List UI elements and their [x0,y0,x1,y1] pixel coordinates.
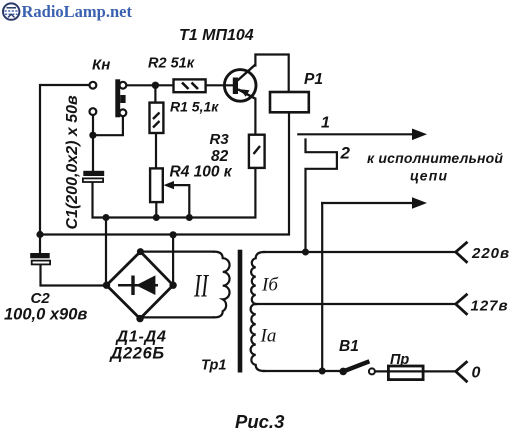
svg-text:II: II [193,268,209,303]
svg-text:RadioLamp.net: RadioLamp.net [22,2,133,21]
svg-text:Iб: Iб [261,275,279,296]
svg-text:100,0 х90в: 100,0 х90в [4,306,87,324]
svg-text:Кн: Кн [92,57,110,74]
svg-text:В1: В1 [339,338,359,355]
svg-text:R4 100 к: R4 100 к [170,164,233,181]
svg-text:R2 51к: R2 51к [148,56,195,72]
svg-text:Р1: Р1 [304,71,323,88]
svg-text:Пр: Пр [390,352,409,368]
svg-text:2: 2 [340,144,351,163]
svg-text:82: 82 [211,148,229,165]
svg-text:Iа: Iа [260,326,277,347]
svg-text:R3: R3 [210,131,230,148]
svg-text:Тр1: Тр1 [201,358,226,374]
svg-text:220в: 220в [471,245,510,262]
svg-text:цепи: цепи [410,168,448,184]
svg-text:Д226Б: Д226Б [109,345,165,363]
svg-text:Т1 МП104: Т1 МП104 [179,27,254,44]
svg-text:Д1-Д4: Д1-Д4 [115,329,167,346]
svg-text:Рис.3: Рис.3 [235,411,285,432]
svg-text:127в: 127в [471,298,509,315]
svg-text:R1 5,1к: R1 5,1к [170,99,219,115]
svg-text:к исполнительной: к исполнительной [367,150,503,166]
svg-text:С2: С2 [31,290,51,307]
svg-text:С1(200,0х2) х 50в: С1(200,0х2) х 50в [64,95,81,230]
svg-text:1: 1 [321,115,330,132]
svg-text:0: 0 [472,365,481,382]
